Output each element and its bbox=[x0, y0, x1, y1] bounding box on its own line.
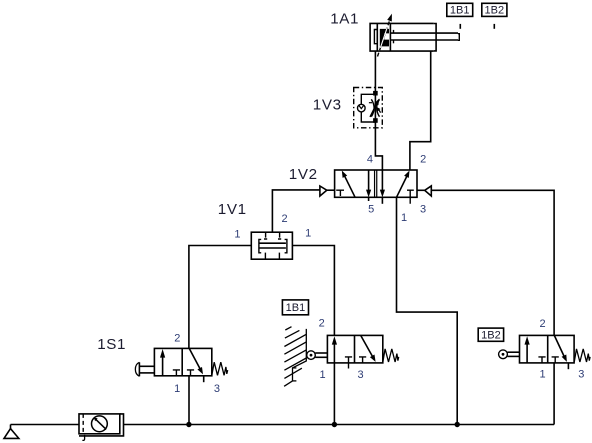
svg-text:1: 1 bbox=[305, 228, 311, 240]
svg-text:1B2: 1B2 bbox=[481, 329, 501, 341]
valve 1S1 3/2 push button bbox=[135, 348, 227, 382]
wire 1S1 port 1 to rail bbox=[188, 376, 190, 425]
air source bbox=[4, 425, 19, 439]
svg-text:3: 3 bbox=[420, 204, 426, 216]
svg-text:3: 3 bbox=[214, 383, 220, 395]
svg-text:2: 2 bbox=[282, 213, 288, 225]
wire 1S1 port 2 to 1V1 left inlet bbox=[189, 246, 251, 349]
wire 1B1 port 1 to rail bbox=[333, 363, 335, 425]
svg-text:1: 1 bbox=[540, 369, 546, 381]
svg-text:1B1: 1B1 bbox=[286, 302, 306, 314]
svg-text:1V1: 1V1 bbox=[218, 201, 247, 218]
junction node at 1B1 drop bbox=[332, 422, 337, 427]
svg-text:1: 1 bbox=[174, 383, 180, 395]
svg-text:2: 2 bbox=[540, 318, 546, 330]
svg-text:2: 2 bbox=[420, 153, 426, 165]
svg-text:1V2: 1V2 bbox=[289, 166, 318, 183]
label box 1B1 bbox=[282, 300, 308, 315]
wire 1V3 to 1V2 port 4 bbox=[375, 121, 382, 171]
pilot wire 1B2 output to 1V2 right pilot bbox=[431, 190, 554, 335]
air service unit bbox=[79, 414, 124, 440]
svg-text:1S1: 1S1 bbox=[97, 336, 126, 353]
trip cam wall for 1B1 bbox=[284, 327, 306, 387]
junction node at 1S1 drop bbox=[186, 422, 191, 427]
svg-text:2: 2 bbox=[319, 317, 325, 329]
svg-text:1V3: 1V3 bbox=[313, 96, 342, 113]
valve 1B2 3/2 roller actuated bbox=[499, 335, 590, 369]
junction node at 1V2 supply drop bbox=[455, 422, 460, 427]
svg-text:1: 1 bbox=[234, 229, 240, 241]
wire 1B2 port 1 to rail bbox=[553, 363, 555, 425]
svg-text:1: 1 bbox=[320, 369, 326, 381]
svg-text:1B1: 1B1 bbox=[450, 5, 470, 17]
wire 1B1 port 2 to 1V1 right inlet bbox=[292, 246, 334, 336]
svg-text:2: 2 bbox=[174, 332, 180, 344]
wire cylinder left port to 1V3 bbox=[374, 51, 376, 93]
svg-text:1: 1 bbox=[401, 212, 407, 224]
two pressure valve 1V1 bbox=[251, 232, 292, 259]
supply rail wire bbox=[11, 424, 80, 426]
svg-text:4: 4 bbox=[367, 153, 373, 165]
label box 1B2 bbox=[478, 328, 503, 341]
wire cylinder right port to 1V2 port 2 bbox=[410, 51, 431, 170]
sensor marker box 1B1 bbox=[447, 3, 473, 29]
flow control valve 1V3 bbox=[354, 88, 383, 128]
pilot wire 1V1 output to 1V2 left pilot bbox=[272, 190, 320, 232]
svg-text:3: 3 bbox=[358, 369, 364, 381]
sensor marker box 1B2 bbox=[482, 3, 507, 29]
wire 1V2 port 1 to supply rail bbox=[397, 197, 458, 424]
svg-text:5: 5 bbox=[368, 204, 374, 216]
valve 1V2 5/2 way bbox=[320, 170, 431, 204]
svg-text:1B2: 1B2 bbox=[485, 5, 505, 17]
valve 1B1 3/2 roller actuated bbox=[307, 335, 399, 368]
svg-text:3: 3 bbox=[578, 369, 584, 381]
cylinder 1A1 bbox=[370, 14, 459, 57]
svg-text:1A1: 1A1 bbox=[330, 11, 359, 28]
